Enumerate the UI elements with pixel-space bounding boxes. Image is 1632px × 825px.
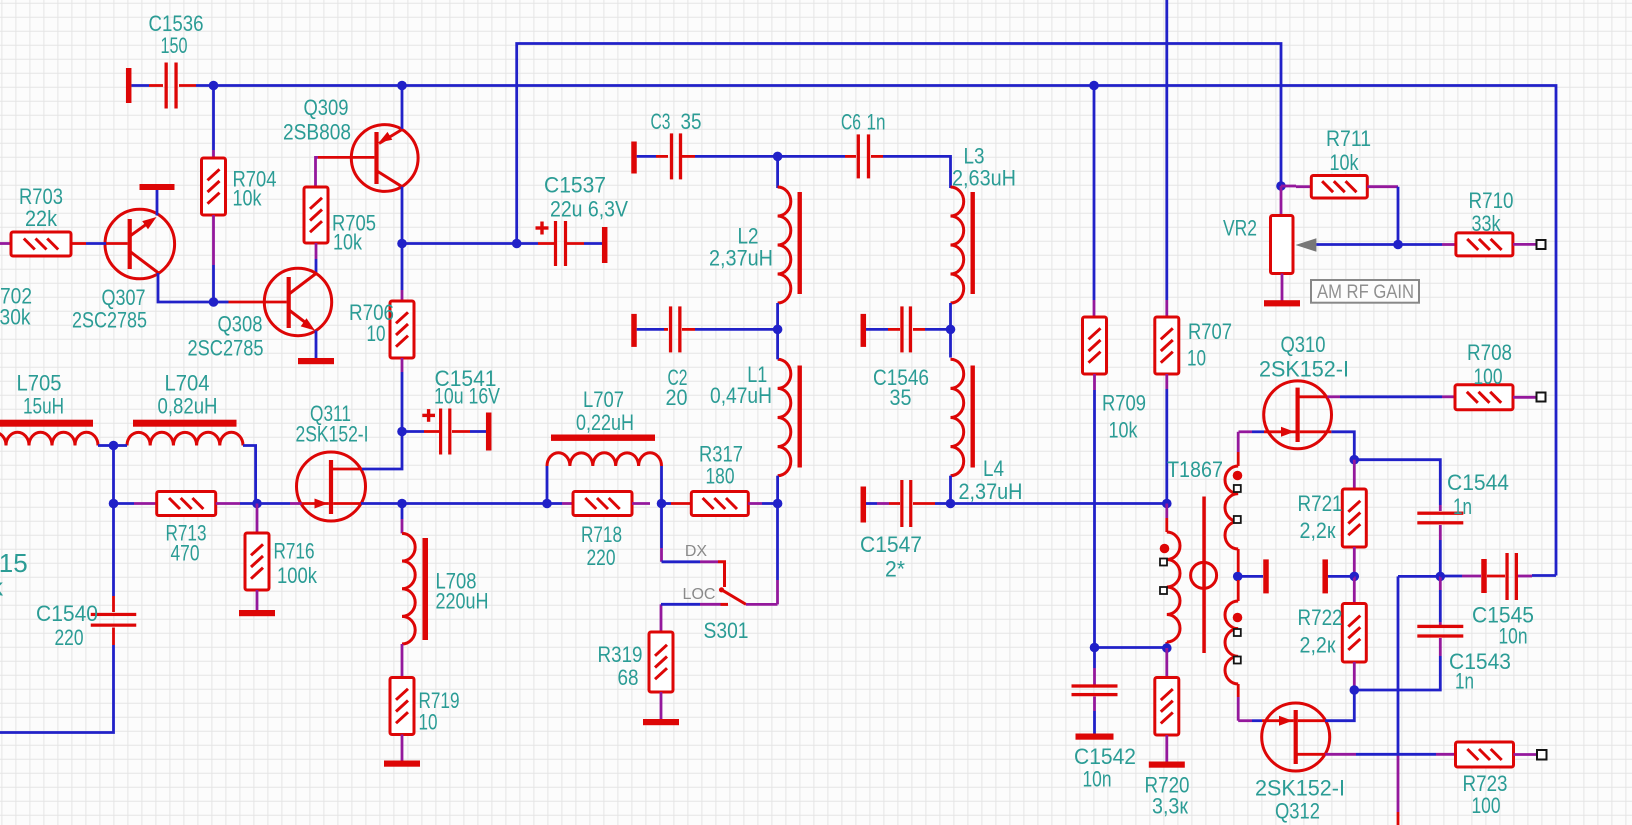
svg-text:2SB808: 2SB808 [283, 120, 351, 145]
svg-text:3,3к: 3,3к [1152, 794, 1188, 819]
svg-text:Q309: Q309 [304, 95, 349, 120]
svg-text:C6: C6 [841, 110, 861, 135]
svg-text:C1540: C1540 [36, 601, 98, 626]
svg-text:2,37uH: 2,37uH [959, 479, 1023, 504]
svg-text:30k: 30k [0, 305, 31, 330]
svg-text:10: 10 [367, 321, 386, 346]
svg-text:100: 100 [1472, 793, 1501, 818]
svg-text:10: 10 [1187, 346, 1206, 371]
svg-text:715: 715 [0, 548, 28, 578]
svg-text:T1867: T1867 [1167, 457, 1223, 482]
svg-text:100: 100 [1474, 364, 1503, 389]
svg-text:2*: 2* [885, 557, 905, 582]
svg-text:1n: 1n [1453, 494, 1472, 519]
svg-text:68: 68 [618, 665, 639, 690]
svg-text:22k: 22k [25, 206, 58, 231]
svg-text:LOC: LOC [683, 586, 716, 603]
svg-text:2SK152-I: 2SK152-I [1255, 776, 1345, 801]
svg-text:10k: 10k [233, 186, 263, 211]
svg-text:10u 16V: 10u 16V [434, 384, 500, 409]
svg-text:10n: 10n [1083, 767, 1112, 792]
svg-text:R319: R319 [598, 642, 643, 667]
svg-text:R710: R710 [1469, 188, 1514, 213]
svg-text:100k: 100k [277, 563, 318, 588]
svg-text:10k: 10k [1109, 418, 1139, 443]
svg-text:0,47uH: 0,47uH [710, 383, 772, 408]
svg-text:220: 220 [55, 625, 84, 650]
svg-text:C3: C3 [651, 109, 671, 134]
svg-text:33k: 33k [1472, 211, 1502, 236]
svg-text:10k: 10k [1330, 150, 1360, 175]
svg-text:C1537: C1537 [544, 173, 606, 198]
svg-text:L704: L704 [165, 371, 210, 396]
svg-text:L705: L705 [17, 371, 62, 396]
svg-text:10: 10 [419, 710, 438, 735]
svg-text:35: 35 [681, 109, 702, 134]
svg-text:R707: R707 [1188, 319, 1232, 344]
svg-text:S301: S301 [704, 618, 749, 643]
svg-text:220uH: 220uH [436, 589, 489, 614]
svg-text:220: 220 [587, 545, 616, 570]
svg-text:DX: DX [685, 543, 708, 560]
svg-text:Q308: Q308 [218, 312, 263, 337]
svg-text:C1544: C1544 [1447, 470, 1509, 495]
svg-text:VR2: VR2 [1223, 216, 1257, 241]
svg-text:2SK152-I: 2SK152-I [296, 422, 369, 447]
svg-text:Q310: Q310 [1281, 332, 1326, 357]
svg-text:2,2к: 2,2к [1300, 518, 1336, 543]
svg-text:2,2к: 2,2к [1300, 633, 1336, 658]
svg-text:150: 150 [161, 33, 188, 58]
svg-text:2SC2785: 2SC2785 [188, 336, 264, 361]
svg-text:C1542: C1542 [1074, 744, 1136, 769]
svg-text:0,22uH: 0,22uH [576, 410, 634, 435]
svg-text:0,82uH: 0,82uH [158, 394, 218, 419]
svg-text:15uH: 15uH [23, 394, 64, 419]
svg-text:20: 20 [666, 385, 688, 410]
svg-text:22u 6,3V: 22u 6,3V [550, 197, 628, 222]
svg-text:470: 470 [171, 541, 200, 566]
svg-text:R718: R718 [581, 522, 622, 547]
svg-text:AM RF GAIN: AM RF GAIN [1317, 282, 1414, 303]
svg-text:2,37uH: 2,37uH [709, 246, 773, 271]
svg-text:10n: 10n [1499, 624, 1528, 649]
svg-text:1n: 1n [1455, 669, 1474, 694]
svg-text:R709: R709 [1102, 391, 1146, 416]
svg-text:L707: L707 [583, 387, 624, 412]
svg-text:R721: R721 [1298, 491, 1343, 516]
svg-text:2,63uH: 2,63uH [952, 166, 1016, 191]
svg-text:Q312: Q312 [1275, 799, 1320, 824]
svg-text:R711: R711 [1326, 126, 1371, 151]
svg-text:Q307: Q307 [102, 285, 146, 310]
svg-text:R716: R716 [274, 539, 315, 564]
svg-text:35: 35 [890, 385, 912, 410]
svg-text:180: 180 [706, 464, 735, 489]
svg-text:R708: R708 [1467, 340, 1512, 365]
svg-text:2SK152-I: 2SK152-I [1259, 357, 1349, 382]
svg-text:C1547: C1547 [860, 532, 922, 557]
svg-text:L4: L4 [983, 456, 1004, 481]
svg-text:2SC2785: 2SC2785 [72, 308, 147, 333]
svg-text:1n: 1n [867, 110, 886, 135]
svg-text:R722: R722 [1298, 605, 1343, 630]
svg-text:10k: 10k [333, 230, 363, 255]
